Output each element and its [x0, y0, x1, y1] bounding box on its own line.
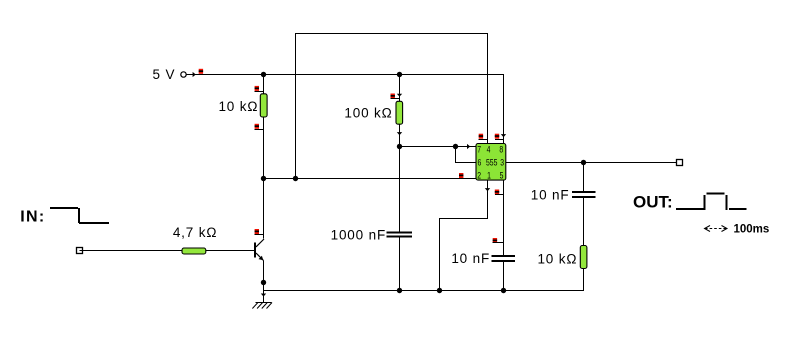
svg-text:10 kΩ: 10 kΩ — [218, 99, 258, 114]
svg-text:4,7 kΩ: 4,7 kΩ — [173, 225, 217, 240]
svg-text:7: 7 — [477, 145, 481, 155]
svg-text:4: 4 — [487, 145, 491, 155]
svg-text:IN:: IN: — [20, 209, 45, 226]
svg-text:8: 8 — [499, 145, 503, 155]
svg-text:1000 nF: 1000 nF — [331, 227, 387, 242]
svg-text:555: 555 — [486, 158, 498, 168]
svg-text:OUT:: OUT: — [633, 192, 673, 211]
svg-text:5: 5 — [500, 171, 504, 181]
svg-text:10 nF: 10 nF — [451, 251, 490, 266]
svg-text:3: 3 — [500, 158, 504, 168]
svg-text:2: 2 — [477, 171, 481, 181]
svg-text:100ms: 100ms — [734, 224, 770, 236]
svg-text:100 kΩ: 100 kΩ — [344, 105, 392, 120]
svg-text:10 nF: 10 nF — [531, 187, 570, 202]
svg-text:1: 1 — [487, 171, 491, 181]
svg-text:10 kΩ: 10 kΩ — [537, 251, 577, 266]
svg-text:6: 6 — [478, 158, 482, 168]
svg-text:5 V: 5 V — [153, 67, 176, 82]
